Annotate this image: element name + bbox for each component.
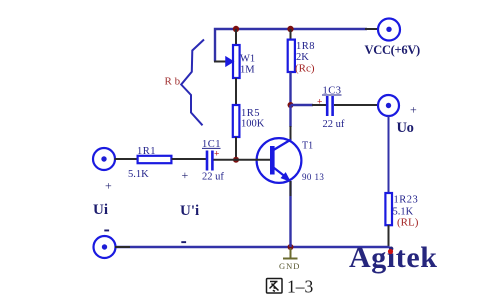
svg-text:U'i: U'i — [180, 203, 199, 219]
svg-text:T1: T1 — [302, 141, 313, 152]
svg-text:Agitek: Agitek — [349, 241, 438, 274]
potentiometer W1 body — [233, 45, 240, 78]
wire collector pin — [290, 126, 292, 140]
ground symbol — [290, 248, 292, 258]
wire W1 top pin — [235, 29, 237, 45]
svg-text:22 uf: 22 uf — [202, 172, 224, 183]
terminal output Uo — [378, 95, 399, 116]
node junction top W1 — [233, 26, 239, 32]
wire 1R8 to collector node — [289, 72, 291, 105]
svg-text:1R8: 1R8 — [296, 41, 315, 52]
wire 1R1 to 1C1 — [172, 158, 207, 160]
wire collector node to transistor — [289, 105, 291, 127]
svg-text:100K: 100K — [241, 119, 265, 130]
potentiometer W1 wiper arrow — [226, 57, 233, 66]
node emitter junction on bottom rail — [288, 244, 294, 250]
svg-text:2K: 2K — [296, 52, 309, 63]
svg-text:GND: GND — [279, 261, 300, 271]
capacitor 1C1 plates — [206, 151, 209, 171]
wire 1C3 to output terminal — [334, 104, 379, 106]
resistor 1R23 body — [385, 193, 392, 225]
node junction top 1R8 — [287, 26, 293, 32]
node collector junction — [288, 102, 294, 108]
svg-text:(Rc): (Rc) — [295, 63, 315, 75]
svg-text:(RL): (RL) — [397, 217, 419, 229]
brace Rb — [181, 40, 204, 126]
caption 图 1-3 — [267, 279, 283, 294]
resistor 1R5 body — [233, 105, 240, 137]
wire into 1C3 left plate — [312, 104, 326, 106]
wire output terminal to 1R23 — [388, 116, 390, 193]
wire input terminal to 1R1 — [115, 158, 139, 160]
svg-text:VCC(+6V): VCC(+6V) — [365, 43, 421, 57]
svg-text:W1: W1 — [240, 54, 255, 65]
svg-text:1R23: 1R23 — [394, 195, 419, 206]
svg-text:+: + — [105, 179, 112, 193]
wire collector node to 1C3 — [291, 104, 314, 106]
svg-text:1M: 1M — [240, 65, 255, 76]
terminal VCC — [378, 19, 400, 41]
logo i dot red — [388, 249, 393, 254]
svg-text:+: + — [410, 103, 417, 117]
label minus on bottom rail — [181, 241, 186, 243]
wire base pin — [236, 159, 270, 161]
svg-text:R b: R b — [165, 76, 181, 88]
svg-text:22 uf: 22 uf — [323, 119, 345, 130]
wire emitter pin black — [290, 181, 292, 196]
transistor base bar — [270, 146, 275, 175]
svg-text:Ui: Ui — [93, 202, 108, 218]
svg-text:1R5: 1R5 — [241, 108, 260, 119]
wire top rail to VCC terminal — [365, 28, 378, 30]
svg-text:90 13: 90 13 — [302, 172, 324, 182]
wire 1R23 to bottom rail — [388, 225, 390, 247]
wire top rail — [215, 29, 367, 62]
transistor collector stroke — [274, 140, 292, 151]
svg-text:Uo: Uo — [397, 120, 414, 136]
terminal input bottom — [94, 236, 116, 258]
wire 1R5 to base node — [235, 137, 237, 160]
label minus above bottom terminal — [104, 230, 109, 232]
node base junction — [233, 157, 239, 163]
svg-text:5.1K: 5.1K — [128, 169, 149, 180]
svg-text:+: + — [182, 168, 189, 182]
resistor 1R1 body — [138, 156, 172, 163]
transistor T1 circle — [257, 138, 302, 183]
wire emitter to bottom rail — [289, 181, 291, 247]
wire 1C1 to base node — [214, 159, 238, 161]
wire to W1 wiper arrow — [214, 61, 226, 63]
transistor emitter stroke with arrow — [274, 168, 288, 179]
svg-text:1R1: 1R1 — [137, 146, 156, 157]
resistor 1R8 body — [288, 40, 295, 72]
wire bottom rail — [115, 246, 389, 247]
svg-text:+: + — [214, 150, 219, 160]
capacitor 1C3 plates — [326, 96, 329, 116]
wire W1 to R5 — [235, 78, 237, 105]
terminal input top — [93, 148, 115, 170]
wire 1R8 top pin — [290, 29, 292, 40]
wire bottom terminal to rail — [115, 246, 130, 248]
svg-text:1–3: 1–3 — [287, 277, 314, 297]
svg-text:+: + — [317, 98, 322, 108]
